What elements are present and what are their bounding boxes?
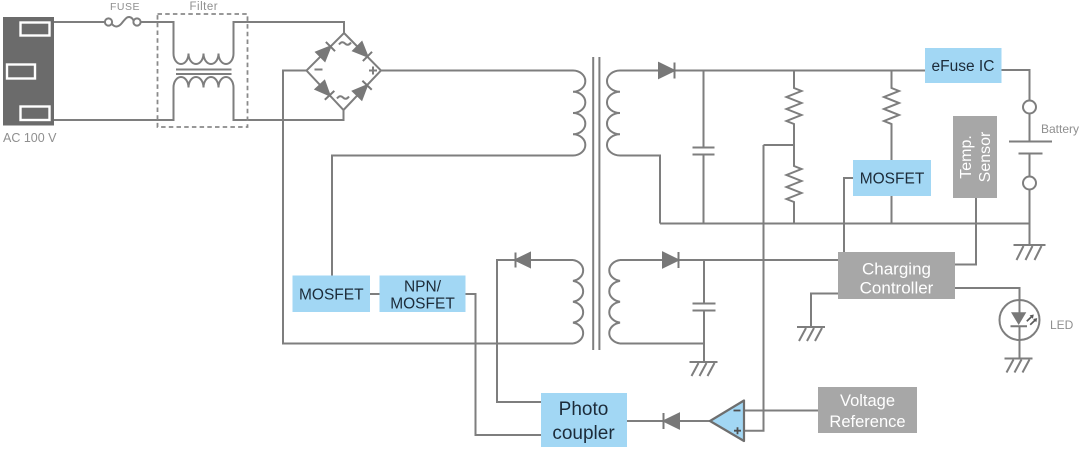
svg-text:Temp.: Temp. — [958, 135, 975, 179]
svg-text:AC 100 V: AC 100 V — [3, 131, 57, 145]
svg-text:Filter: Filter — [190, 1, 219, 13]
svg-text:Battery: Battery — [1041, 122, 1079, 136]
svg-text:LED: LED — [1050, 318, 1074, 332]
svg-text:Voltage: Voltage — [840, 392, 895, 410]
svg-text:Photo: Photo — [559, 399, 609, 420]
svg-text:MOSFET: MOSFET — [390, 296, 455, 313]
svg-text:eFuse IC: eFuse IC — [932, 58, 995, 75]
svg-text:Charging: Charging — [862, 260, 931, 279]
svg-text:Sensor: Sensor — [977, 131, 994, 182]
svg-text:coupler: coupler — [552, 423, 615, 444]
svg-text:MOSFET: MOSFET — [299, 287, 364, 304]
svg-text:Controller: Controller — [860, 279, 934, 298]
svg-text:NPN/: NPN/ — [404, 279, 442, 296]
svg-text:MOSFET: MOSFET — [860, 171, 925, 188]
svg-text:Reference: Reference — [829, 413, 905, 431]
svg-text:FUSE: FUSE — [110, 1, 140, 13]
